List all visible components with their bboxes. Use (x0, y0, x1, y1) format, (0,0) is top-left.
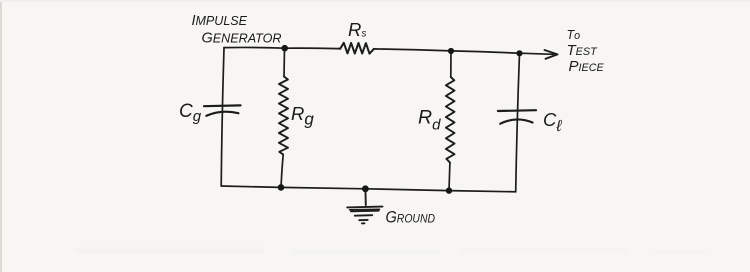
wire: left vertical (impulse generator branch) (221, 48, 224, 186)
node: Rd bottom junction (446, 187, 452, 193)
svg-text:To: To (567, 28, 581, 42)
wire: Rd top lead (450, 51, 452, 77)
wire: top segment Rs to Rd junction (374, 49, 451, 51)
resistor Rg (279, 77, 288, 155)
capacitor Cg bottom curved plate (206, 112, 238, 116)
arrowhead: to test piece (545, 50, 558, 59)
faint scan ghosting at bottom (75, 247, 710, 255)
label "To TEST PIECE" (567, 28, 605, 75)
wire: Rd bottom lead (448, 163, 451, 191)
svg-text:GENERATOR: GENERATOR (202, 30, 282, 46)
svg-text:IMPULSE: IMPULSE (192, 13, 248, 29)
node: impulse generator output junction (281, 45, 288, 52)
wire: bottom horizontal (221, 186, 516, 192)
node: Cl top junction (516, 50, 522, 56)
capacitor Cl top plate (498, 109, 536, 112)
wire: top-left horizontal segment (224, 46, 285, 49)
node: Rg bottom junction (278, 184, 285, 191)
resistor Rs (339, 43, 374, 54)
node: ground junction (362, 185, 369, 192)
wire: output lead with arrow to test piece (520, 53, 554, 54)
wire: top segment Rd junction to Cl junction (451, 51, 520, 53)
node: Rd top junction (448, 48, 454, 54)
wire: Rg bottom lead (281, 155, 283, 188)
ground (347, 189, 382, 224)
wire: Rg top lead (283, 48, 286, 76)
wire: top segment from Rg junction to Rs (285, 47, 339, 49)
capacitor Cg top plate (204, 104, 241, 107)
wire: right vertical (Cl branch) (516, 53, 520, 192)
capacitor Cl bottom curved plate (500, 119, 532, 123)
label "IMPULSE GENERATOR" (192, 13, 282, 46)
resistor Rd (446, 77, 455, 163)
